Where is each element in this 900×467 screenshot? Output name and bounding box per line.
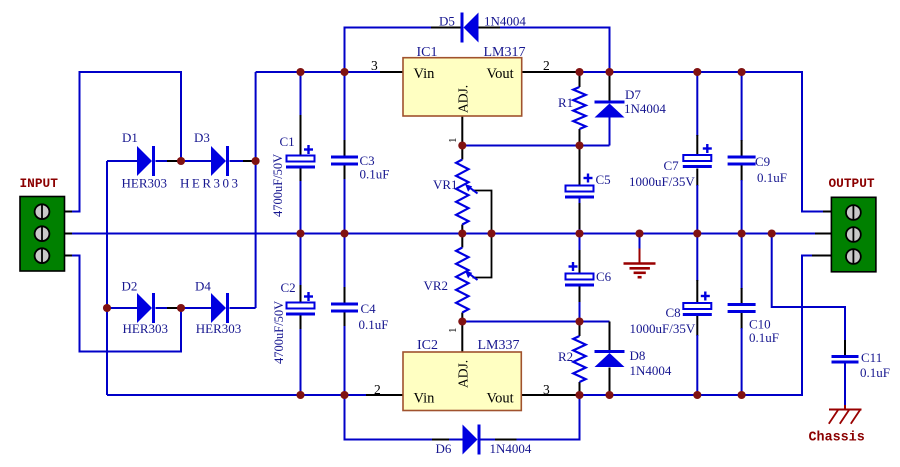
junction dots on ADJ2 rail [458, 317, 583, 325]
svg-text:3: 3 [371, 58, 378, 73]
wire: negative rail left to IC2 Vin [107, 394, 403, 396]
wire: R1 bottom lead [579, 129, 581, 146]
junction dots on ground rail [296, 229, 775, 237]
wire: C5 top lead [579, 146, 581, 186]
wire: C2 bottom lead [300, 315, 302, 396]
svg-text:Chassis: Chassis [809, 431, 865, 446]
ground (earth) symbol [624, 234, 656, 278]
wire: C7 top lead [696, 72, 698, 155]
wire: ground rail y=233.5 (INPUT pin2 to OUTPUT pin2) [64, 233, 832, 235]
svg-text:D2: D2 [122, 279, 138, 294]
junction dots on ADJ1 rail [458, 141, 583, 149]
svg-text:HER303: HER303 [123, 321, 169, 336]
chassis ground symbol [809, 410, 865, 446]
wire: IC2 ADJ pin lead [461, 322, 463, 353]
svg-text:D7: D7 [625, 87, 641, 102]
wire: C9 bottom lead [741, 166, 743, 234]
wire: D7 bottom lead [609, 118, 611, 146]
connector OUTPUT [829, 176, 876, 272]
wire: IC1 Vout pin 2 lead [522, 71, 578, 73]
wire: C6 bottom lead [579, 286, 581, 322]
capacitor C5 [565, 172, 611, 199]
svg-text:1N4004: 1N4004 [630, 363, 672, 378]
wire: IC2 Vout pin 3 lead [521, 394, 578, 396]
wire: input bottom loop (INPUT pin3 to D2/D4 junction) [64, 256, 182, 352]
wire: IC1 ADJ pin lead [461, 116, 463, 146]
wire: C4 top lead [344, 234, 346, 303]
wire: R1 top lead [579, 72, 581, 87]
wire: D6 bypass loop right [481, 395, 580, 440]
wire: VR2 bottom lead [461, 313, 463, 322]
svg-text:Vout: Vout [487, 66, 514, 82]
svg-text:1N4004: 1N4004 [490, 441, 532, 456]
diode D5 [439, 13, 526, 43]
capacitor C8 1000uF/35V [630, 292, 712, 337]
pin 2 label IC2 [374, 382, 381, 397]
resistor R2 [558, 336, 586, 382]
junction dots on bottom rail [296, 391, 745, 399]
pin 1 label IC2 [447, 328, 459, 334]
junction dots on bridge [103, 157, 260, 312]
svg-text:D8: D8 [630, 348, 646, 363]
wire: chassis branch from ground rail [772, 234, 845, 356]
wire: C1 bottom lead [300, 168, 302, 234]
diode D6 [436, 425, 532, 457]
diode D7 [595, 87, 667, 118]
wire: D7 top lead [609, 72, 611, 101]
wire: ADJ2 elbow to D8 [580, 322, 610, 351]
svg-text:D4: D4 [195, 279, 211, 294]
wire: C11 bottom lead [844, 364, 846, 411]
svg-text:LM337: LM337 [478, 338, 520, 353]
diode D3 [180, 130, 241, 191]
svg-text:Vin: Vin [414, 66, 436, 82]
op-amp U: regulator IC2 LM337 [403, 338, 521, 411]
svg-text:C1: C1 [280, 134, 295, 149]
wire: D4 cathode lead [230, 307, 256, 309]
diode D8 [595, 348, 672, 378]
wire: D3 cathode lead [230, 160, 256, 162]
svg-text:C2: C2 [281, 280, 296, 295]
wire: C1 top lead [300, 72, 302, 156]
diode D1 [122, 130, 168, 191]
wire: C3 bottom lead [344, 166, 346, 234]
svg-text:R2: R2 [558, 349, 573, 364]
svg-text:1N4004: 1N4004 [484, 14, 526, 29]
wire: VR2 top lead [461, 234, 463, 248]
wire: VR1 bottom lead [461, 225, 463, 234]
svg-text:Vout: Vout [487, 391, 514, 407]
svg-text:2: 2 [543, 58, 550, 73]
svg-text:VR2: VR2 [424, 278, 449, 293]
wire: D1 anode lead [107, 160, 137, 162]
capacitor C9 0.1uF [728, 154, 787, 185]
svg-text:IC2: IC2 [417, 338, 438, 353]
svg-text:0.1uF: 0.1uF [749, 330, 779, 345]
connector INPUT [20, 176, 65, 271]
wire: D4 anode lead [181, 307, 211, 309]
wire: input top loop (INPUT pin1 to D1/D3 junction) [64, 72, 182, 212]
svg-text:1: 1 [447, 328, 459, 334]
wire: D2 anode lead [107, 307, 137, 309]
svg-text:ADJ.: ADJ. [456, 360, 471, 388]
capacitor C10 0.1uF [728, 303, 779, 345]
wire: D5 bypass loop right [479, 28, 610, 73]
wire: C4 bottom lead [344, 313, 346, 396]
svg-text:D3: D3 [194, 130, 210, 145]
capacitor C2 4700uF/50V [272, 280, 315, 364]
wire: IC2 ADJ rail y=321.5 [462, 321, 579, 323]
potentiometer VR2 [424, 248, 478, 313]
svg-text:D6: D6 [436, 441, 452, 456]
pin 3 label IC2 [543, 382, 550, 397]
svg-text:0.1uF: 0.1uF [860, 365, 890, 380]
diode D4 [195, 279, 241, 337]
svg-text:C5: C5 [596, 172, 611, 187]
svg-text:C6: C6 [596, 269, 612, 284]
wire: unregulated positive rail y=72 to IC1 Vin [256, 71, 403, 73]
svg-text:Vin: Vin [414, 391, 436, 407]
svg-text:C9: C9 [755, 154, 770, 169]
svg-text:INPUT: INPUT [20, 176, 59, 191]
svg-text:LM317: LM317 [484, 45, 526, 60]
wire: D8 bottom lead [609, 368, 611, 396]
svg-text:HER303: HER303 [196, 321, 242, 336]
capacitor C3 0.1uF [331, 153, 389, 182]
svg-text:D5: D5 [439, 14, 455, 29]
wire: rectifier positive vertical x=255.6 [255, 72, 257, 308]
wire: regulated positive rail to OUTPUT pin1 [578, 72, 831, 212]
svg-text:ADJ.: ADJ. [456, 85, 471, 113]
wire: C7 bottom lead [696, 169, 698, 234]
wire: D1 cathode lead [156, 160, 182, 162]
svg-text:C7: C7 [664, 158, 680, 173]
svg-text:0.1uF: 0.1uF [359, 317, 389, 332]
wire: R2 bottom lead [579, 382, 581, 395]
wire: C2 top lead [300, 234, 302, 303]
svg-text:3: 3 [543, 382, 550, 397]
wire: regulated negative rail to OUTPUT pin3 [578, 256, 831, 396]
svg-text:HER303: HER303 [122, 176, 168, 191]
svg-text:1000uF/35V: 1000uF/35V [630, 321, 696, 336]
svg-text:HER303: HER303 [180, 176, 241, 191]
svg-text:4700uF/50V: 4700uF/50V [272, 301, 286, 364]
wire: D6 bypass loop left [345, 395, 463, 440]
capacitor C4 0.1uF [331, 301, 388, 332]
wire: VR1 wiper wire [473, 191, 492, 234]
wire: C5 bottom lead [579, 198, 581, 234]
svg-text:1N4004: 1N4004 [624, 101, 666, 116]
capacitor C1 4700uF/50V [271, 134, 315, 217]
svg-text:OUTPUT: OUTPUT [829, 176, 875, 191]
svg-text:1: 1 [447, 138, 459, 144]
op-amp U: regulator IC1 LM317 [403, 45, 526, 116]
capacitor C6 [565, 262, 612, 287]
wire: VR2 wiper wire [473, 234, 492, 278]
capacitor C7 1000uF/35V [629, 144, 712, 189]
potentiometer VR1 [433, 160, 478, 225]
pin 3 label IC1 [371, 58, 378, 73]
svg-text:R1: R1 [558, 95, 573, 110]
svg-text:0.1uF: 0.1uF [757, 170, 787, 185]
svg-text:VR1: VR1 [433, 177, 458, 192]
svg-text:C4: C4 [361, 301, 377, 316]
wire: C6 top lead [579, 234, 581, 274]
wire: C10 bottom lead [741, 313, 743, 395]
svg-text:2: 2 [374, 382, 381, 397]
wire: C3 top lead [344, 72, 346, 156]
wire: C8 bottom lead [696, 314, 698, 395]
wire: D3 anode lead [181, 160, 211, 162]
wire: VR1 top lead [461, 146, 463, 160]
wire: C9 top lead [741, 72, 743, 156]
wire: C8 top lead [696, 234, 698, 304]
svg-text:C11: C11 [861, 350, 882, 365]
svg-text:4700uF/50V: 4700uF/50V [271, 154, 285, 217]
diode D2 [122, 279, 169, 337]
wire: D5 bypass loop left [345, 28, 461, 73]
wire: R2 top lead [579, 322, 581, 337]
capacitor C11 0.1uF [832, 350, 890, 380]
svg-text:IC1: IC1 [417, 45, 438, 60]
wire: D2 cathode lead [156, 307, 182, 309]
svg-text:D1: D1 [122, 130, 138, 145]
pin 1 label IC1 [447, 138, 459, 144]
wire: IC1 ADJ rail y=145.5 [462, 145, 609, 147]
junction dots on top rail [296, 68, 745, 76]
wire: left vertical x=107 (D1/D2 anodes to negative rail) [106, 161, 108, 395]
svg-text:C8: C8 [666, 305, 681, 320]
pin 2 label IC1 [543, 58, 550, 73]
svg-text:0.1uF: 0.1uF [360, 167, 390, 182]
wire: C10 top lead [741, 234, 743, 304]
resistor R1 [558, 87, 586, 129]
svg-text:1000uF/35V: 1000uF/35V [629, 174, 695, 189]
